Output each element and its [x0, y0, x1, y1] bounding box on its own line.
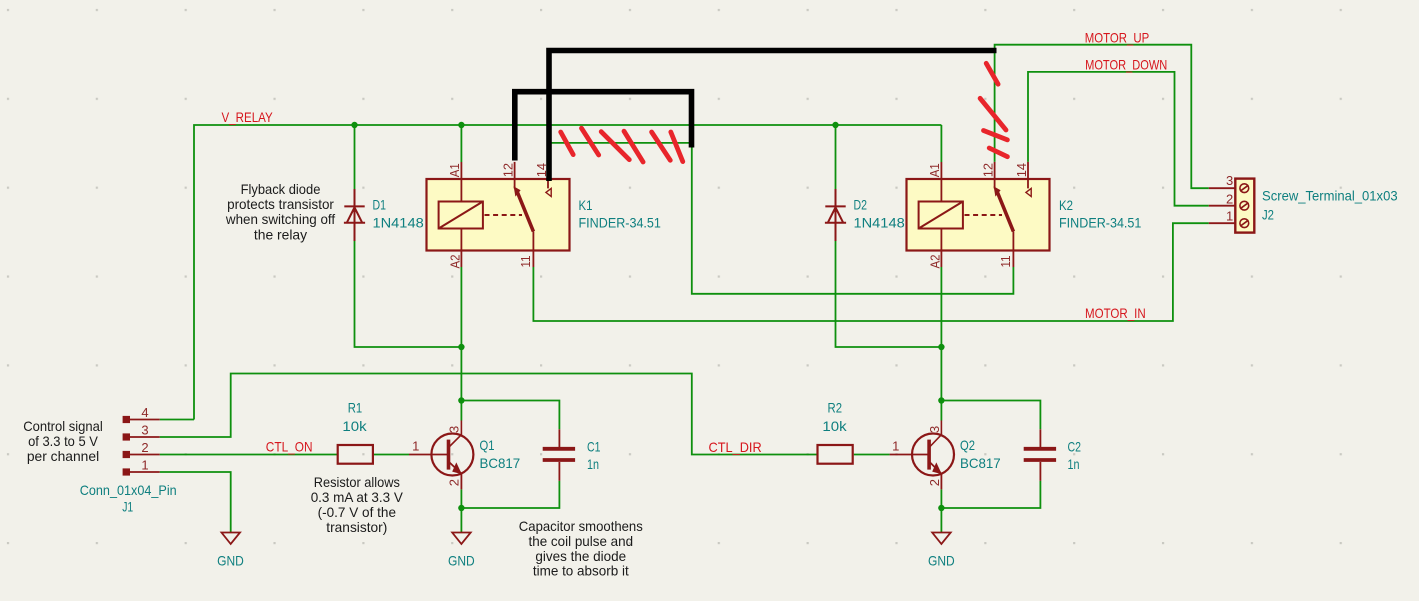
svg-text:MOTOR_IN: MOTOR_IN — [1085, 305, 1146, 321]
junction node Q1 emitter — [458, 505, 464, 511]
svg-text:11: 11 — [518, 256, 533, 268]
svg-text:of 3.3 to 5 V: of 3.3 to 5 V — [28, 433, 98, 449]
svg-text:BC817: BC817 — [960, 455, 1001, 471]
svg-text:J1: J1 — [122, 499, 133, 515]
svg-text:3: 3 — [447, 426, 462, 433]
svg-text:11: 11 — [998, 256, 1013, 268]
svg-text:time to absorb it: time to absorb it — [533, 563, 629, 579]
svg-text:R1: R1 — [348, 400, 363, 416]
svg-text:J2: J2 — [1262, 207, 1274, 223]
svg-text:1: 1 — [1226, 209, 1233, 224]
svg-text:12: 12 — [981, 163, 996, 177]
svg-text:2: 2 — [927, 479, 942, 486]
relay K1 FINDER-34.51 — [427, 162, 570, 267]
svg-text:Control signal: Control signal — [23, 418, 103, 434]
svg-text:Screw_Terminal_01x03: Screw_Terminal_01x03 — [1262, 188, 1398, 204]
svg-text:FINDER-34.51: FINDER-34.51 — [1059, 215, 1142, 231]
ground symbol (Q1) — [452, 533, 471, 545]
wire J1 pin4 to V_RELAY vertical — [160, 419, 194, 421]
svg-text:1N4148: 1N4148 — [373, 215, 424, 231]
svg-text:2: 2 — [141, 440, 148, 455]
svg-text:(-0.7 V of the: (-0.7 V of the — [318, 504, 397, 520]
wire J1 pin2 CTL_ON to R1 — [160, 454, 338, 456]
svg-text:10k: 10k — [342, 418, 367, 434]
wire R2 to Q2 base — [854, 454, 890, 456]
svg-text:Capacitor smoothens: Capacitor smoothens — [519, 518, 643, 534]
wire J1 pin3 to CTL_DIR run across to R2 — [160, 374, 818, 455]
svg-text:CTL_DIR: CTL_DIR — [709, 439, 762, 455]
svg-text:R2: R2 — [828, 400, 843, 416]
svg-text:per channel: per channel — [27, 448, 99, 464]
ground symbol (J1) — [222, 533, 241, 545]
svg-text:transistor): transistor) — [326, 519, 387, 535]
svg-text:GND: GND — [928, 553, 955, 569]
svg-text:1N4148: 1N4148 — [854, 215, 905, 231]
capacitor C2 1n — [1024, 429, 1056, 481]
svg-text:0.3 mA at 3.3 V: 0.3 mA at 3.3 V — [311, 489, 404, 505]
wire Q2 emitter to GND — [940, 489, 942, 532]
svg-text:1n: 1n — [1068, 456, 1080, 472]
resistor R1 10k — [338, 445, 373, 464]
svg-text:1: 1 — [141, 458, 148, 473]
svg-text:when switching off: when switching off — [225, 211, 335, 227]
junction node D1/K1-A2 — [458, 344, 464, 350]
svg-text:3: 3 — [927, 426, 942, 433]
transistor Q1 BC817 — [409, 421, 473, 490]
wire K2 A2 down to Q2 collector node — [940, 267, 942, 401]
wire K1 pin11 MOTOR_IN to J2 pin1 — [533, 223, 1208, 321]
wire K1 pin14 to K2 pin11 — [548, 143, 1013, 294]
wire MOTOR_DOWN K2 pin14 to J2 pin2 — [1028, 72, 1209, 206]
black marker stroke K1 pin12 over to mid wire — [515, 92, 692, 161]
wire J1 pin1 to GND — [160, 472, 231, 533]
svg-text:Flyback diode: Flyback diode — [241, 181, 321, 197]
junction node V_RELAY/D1 — [351, 122, 357, 128]
wire C2 bottom to Q2 emitter node — [941, 481, 1040, 508]
svg-text:2: 2 — [1226, 191, 1233, 206]
red marker scribble group over K2 pin12 wire — [980, 63, 1007, 156]
wire K1 A1 from V_RELAY — [460, 125, 462, 162]
svg-text:the coil pulse and: the coil pulse and — [529, 533, 634, 549]
capacitor C1 1n — [543, 429, 575, 481]
wire K2 A1 from V_RELAY corner — [940, 125, 942, 162]
wire Q2 collector stub to node — [940, 401, 942, 421]
junction node Q2 collector — [938, 397, 944, 403]
wire Q1 collector node to C1 top — [461, 401, 559, 430]
svg-text:12: 12 — [501, 163, 516, 177]
svg-text:C1: C1 — [587, 439, 601, 455]
svg-text:A2: A2 — [448, 255, 463, 269]
wire D2 bottom to node A2/K2 — [836, 241, 942, 347]
svg-text:3: 3 — [141, 423, 148, 438]
svg-text:K2: K2 — [1059, 197, 1073, 213]
junction node Q2 emitter — [938, 505, 944, 511]
svg-text:A1: A1 — [447, 163, 462, 177]
svg-text:FINDER-34.51: FINDER-34.51 — [579, 215, 662, 231]
svg-text:D1: D1 — [373, 197, 387, 213]
svg-text:protects transistor: protects transistor — [227, 196, 334, 212]
note flyback diode — [225, 181, 335, 243]
svg-text:GND: GND — [217, 553, 244, 569]
wire K1 A2 down to Q1 collector node — [460, 267, 462, 401]
svg-text:V_RELAY: V_RELAY — [222, 109, 274, 125]
diode D1 1N4148 — [344, 189, 365, 241]
diode D2 1N4148 — [825, 189, 846, 241]
svg-text:1: 1 — [412, 439, 419, 454]
svg-text:14: 14 — [1014, 163, 1029, 177]
relay K2 FINDER-34.51 — [907, 162, 1050, 267]
svg-text:Q1: Q1 — [480, 437, 495, 453]
svg-text:Conn_01x04_Pin: Conn_01x04_Pin — [80, 482, 177, 498]
svg-text:CTL_ON: CTL_ON — [266, 438, 313, 454]
note control signal — [23, 418, 103, 464]
svg-text:the relay: the relay — [254, 227, 307, 243]
wire D1 top from V_RELAY — [354, 125, 356, 189]
wire R1 to Q1 base — [373, 454, 409, 456]
red marker scribble group over K1 contact wires — [561, 128, 683, 162]
connector J1 Conn_01x04_Pin — [124, 417, 160, 475]
connector J2 Screw_Terminal_01x03 — [1209, 179, 1255, 233]
wire D2 top from V_RELAY — [835, 125, 837, 189]
svg-text:A1: A1 — [927, 163, 942, 177]
svg-text:C2: C2 — [1068, 439, 1082, 455]
svg-text:Resistor allows: Resistor allows — [314, 474, 400, 490]
wire D1 bottom to node A2/K1 — [355, 241, 462, 347]
wire MOTOR_UP K2 pin12 to J2 pin3 — [995, 45, 1209, 189]
note capacitor smoothens — [519, 518, 643, 579]
svg-text:D2: D2 — [854, 197, 868, 213]
wire V_RELAY bus: left vertical to J1 pin4 and top horizontal to K2 A1 — [194, 125, 941, 420]
svg-text:GND: GND — [448, 553, 475, 569]
svg-text:1n: 1n — [587, 456, 599, 472]
svg-text:4: 4 — [141, 405, 148, 420]
ground symbol (Q2) — [932, 533, 951, 545]
junction node D2/K2-A2 — [938, 344, 944, 350]
wire Q1 collector stub to node — [460, 401, 462, 421]
svg-text:MOTOR_DOWN: MOTOR_DOWN — [1085, 56, 1167, 72]
transistor Q2 BC817 — [890, 421, 954, 490]
svg-text:2: 2 — [447, 479, 462, 486]
wire Q2 collector node to C2 top — [941, 401, 1040, 430]
wire C1 bottom to Q1 emitter node — [461, 481, 559, 508]
svg-text:Q2: Q2 — [960, 437, 975, 453]
svg-text:10k: 10k — [822, 418, 847, 434]
note resistor allows — [311, 474, 404, 535]
svg-text:K1: K1 — [579, 197, 593, 213]
svg-text:1: 1 — [892, 439, 899, 454]
resistor R2 10k — [818, 445, 853, 464]
svg-text:A2: A2 — [928, 255, 943, 269]
svg-text:3: 3 — [1226, 173, 1233, 188]
svg-text:MOTOR_UP: MOTOR_UP — [1085, 30, 1149, 46]
svg-text:BC817: BC817 — [480, 455, 521, 471]
black marker stroke K1 pin14 to MOTOR_UP — [549, 51, 997, 182]
junction node Q1 collector — [458, 397, 464, 403]
junction node V_RELAY/D2 — [832, 122, 838, 128]
wire Q1 emitter to GND — [460, 489, 462, 532]
junction node V_RELAY/K1-A1 — [458, 122, 464, 128]
